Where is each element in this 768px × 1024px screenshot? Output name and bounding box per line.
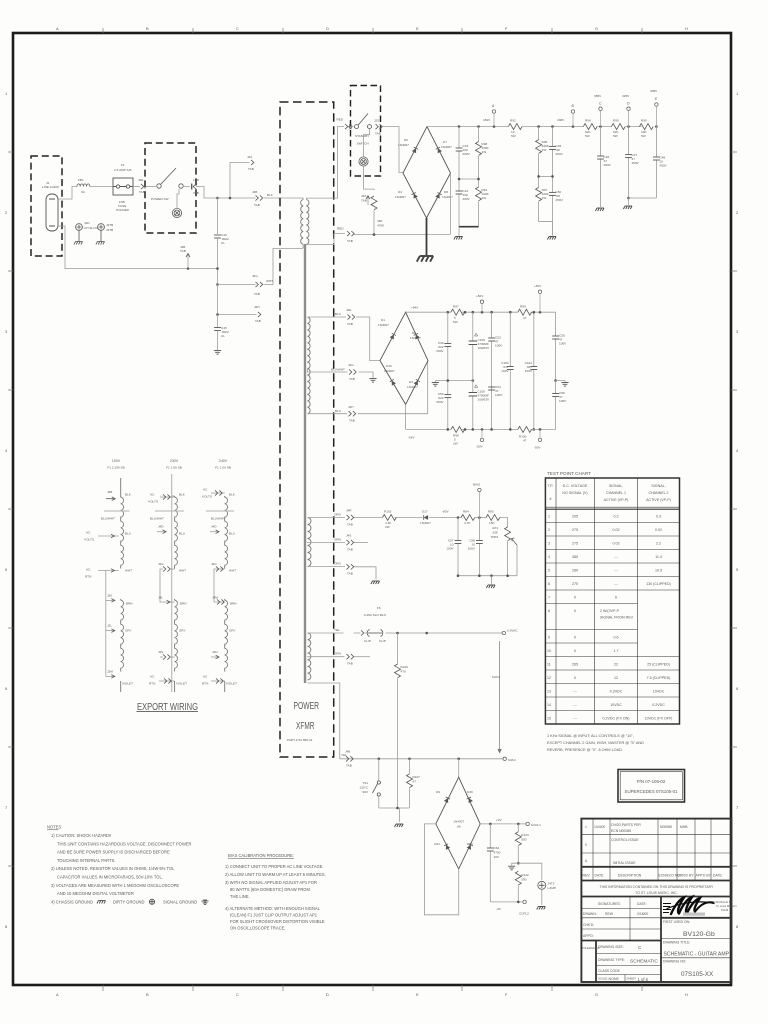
signal ground below C45 xyxy=(217,331,219,351)
svg-text:TAB: TAB xyxy=(347,239,353,243)
svg-text:TS1: TS1 xyxy=(362,781,368,785)
wire RED into standby xyxy=(348,126,354,128)
svg-text:J4D: J4D xyxy=(158,525,164,529)
wire standby out to bridge AC1 xyxy=(383,127,404,173)
svg-text:275: 275 xyxy=(572,542,578,546)
resistor R60 470K xyxy=(371,196,377,235)
svg-text:THE LINE.: THE LINE. xyxy=(230,894,250,899)
svg-text:TAB: TAB xyxy=(248,167,254,171)
svg-text:J4L: J4L xyxy=(158,596,163,600)
wire BLU/WHT center tap to ground xyxy=(359,372,374,378)
svg-text:TO ST. LOUIS MUSIC, INC.: TO ST. LOUIS MUSIC, INC. xyxy=(635,891,677,895)
svg-text:BLU/WHT: BLU/WHT xyxy=(211,517,225,521)
node R106 tap xyxy=(396,632,399,635)
diode D8 xyxy=(435,193,441,199)
svg-text:25 (CLIPPED): 25 (CLIPPED) xyxy=(647,663,670,667)
bridge rectifier 3 diamond xyxy=(458,759,460,777)
node arrow tap xyxy=(425,632,428,635)
J2S chevrons on rail 230 xyxy=(160,654,175,659)
svg-text:SWITCH: SWITCH xyxy=(357,142,369,146)
svg-text:VOLTS: VOLTS xyxy=(84,538,94,542)
connector J4S xyxy=(347,540,354,545)
svg-text:T.P.: T.P. xyxy=(548,484,554,488)
capacitor C57 xyxy=(457,518,459,576)
svg-text:D16: D16 xyxy=(386,364,392,368)
svg-text:6.25A SLO BLO: 6.25A SLO BLO xyxy=(364,613,387,617)
-50V terminal mid xyxy=(480,438,483,441)
svg-text:14: 14 xyxy=(547,703,551,707)
svg-text:1W: 1W xyxy=(542,196,547,200)
connector J4D RED xyxy=(345,124,352,129)
svg-text:13: 13 xyxy=(547,690,551,694)
svg-text:DRAWING NO:: DRAWING NO: xyxy=(663,960,686,964)
svg-text:VIOLET: VIOLET xyxy=(122,682,133,686)
svg-text:1N4007: 1N4007 xyxy=(384,369,395,373)
capacitor C46 xyxy=(217,198,219,234)
svg-text:10.5: 10.5 xyxy=(655,569,662,573)
svg-text:ORG: ORG xyxy=(334,562,342,566)
svg-text:TAB: TAB xyxy=(349,377,355,381)
svg-text:J2B: J2B xyxy=(252,190,257,194)
100V primary coil xyxy=(121,478,124,692)
svg-text:TAB: TAB xyxy=(347,662,353,666)
standby switch S2 xyxy=(355,114,372,129)
diode D6 xyxy=(412,147,418,153)
svg-text:6: 6 xyxy=(736,686,739,691)
-50V terminal right xyxy=(538,438,541,441)
capacitor C53 xyxy=(491,312,493,390)
-3V bottom rail xyxy=(490,901,523,903)
svg-text:8: 8 xyxy=(736,924,739,929)
svg-text:1: 1 xyxy=(585,825,587,829)
mid row stack2 xyxy=(539,175,553,177)
svg-text:GRN: GRN xyxy=(334,652,341,656)
right area lines xyxy=(661,917,731,919)
svg-text:3: 3 xyxy=(5,329,8,334)
svg-text:1N4007: 1N4007 xyxy=(410,336,421,340)
signal ground center tap xyxy=(369,379,376,383)
230V wire color labels xyxy=(176,493,187,686)
svg-text:0: 0 xyxy=(574,676,576,680)
svg-text:J4R: J4R xyxy=(346,509,352,513)
svg-text:DRN'D BY:: DRN'D BY: xyxy=(678,874,695,878)
svg-text:TAB: TAB xyxy=(139,190,145,194)
capacitor C45b xyxy=(552,127,554,177)
+50V rail xyxy=(406,311,556,313)
mid node + signal ground xyxy=(517,862,520,865)
capacitor C49 xyxy=(447,312,449,380)
svg-text:BRN: BRN xyxy=(126,602,133,606)
connector J2S out xyxy=(376,124,383,129)
diode D39 xyxy=(467,797,473,803)
svg-text:YEL: YEL xyxy=(334,628,340,632)
rev table texts xyxy=(582,823,723,981)
svg-text:AC: AC xyxy=(203,488,208,492)
svg-text:GRY: GRY xyxy=(125,629,132,633)
svg-text:WHT: WHT xyxy=(125,569,132,573)
svg-text:3: 3 xyxy=(736,329,739,334)
svg-text:PART # 94-658-41: PART # 94-658-41 xyxy=(287,738,313,742)
bottom row bridge1 filter xyxy=(459,226,479,228)
wire switch out to J2B row xyxy=(183,187,218,199)
svg-text:D3: D3 xyxy=(409,380,413,384)
svg-text:TAB: TAB xyxy=(361,199,367,203)
mid ground right xyxy=(554,379,557,382)
svg-text:C: C xyxy=(638,945,642,950)
svg-text:9: 9 xyxy=(548,636,550,640)
svg-text:2/18/00: 2/18/00 xyxy=(637,912,648,916)
svg-text:J2S: J2S xyxy=(158,650,163,654)
svg-text:R99: R99 xyxy=(520,305,526,309)
terminal 6.3VAC xyxy=(502,631,505,634)
svg-text:205: 205 xyxy=(572,515,578,519)
wire BLU bottom tap xyxy=(308,413,348,415)
BIAS terminal xyxy=(478,516,481,519)
svg-text:250V: 250V xyxy=(436,400,444,404)
svg-text:D39: D39 xyxy=(467,790,473,794)
connector J2H stub xyxy=(218,285,257,315)
HT rail xyxy=(427,126,656,128)
fuse F1 xyxy=(113,178,133,195)
svg-text:+50V: +50V xyxy=(534,284,542,288)
svg-text:R106: R106 xyxy=(401,665,409,669)
svg-text:D40: D40 xyxy=(467,842,473,846)
wire YEL top tap xyxy=(308,632,344,634)
svg-text:4: 4 xyxy=(736,448,739,453)
svg-text:15K: 15K xyxy=(489,521,495,525)
svg-text:6VAC: 6VAC xyxy=(492,675,501,679)
J2G chevrons on rail WHT 230 xyxy=(160,566,175,602)
svg-text:4.7K: 4.7K xyxy=(464,521,471,525)
svg-text:305V: 305V xyxy=(650,89,658,93)
svg-text:ACTIVE (VP-P): ACTIVE (VP-P) xyxy=(646,498,671,502)
svg-text:J2K: J2K xyxy=(107,594,113,598)
svg-text:1901 Burnet Dr.: 1901 Burnet Dr. xyxy=(714,900,732,904)
svg-text:0: 0 xyxy=(574,596,576,600)
trimmer bottom + wiper return xyxy=(508,541,517,575)
svg-text:1N4007: 1N4007 xyxy=(378,323,389,327)
chassis ground filter1 xyxy=(454,237,463,240)
svg-text:J2A: J2A xyxy=(247,155,253,159)
svg-text:VOLTS: VOLTS xyxy=(148,500,158,504)
capacitor C64 xyxy=(489,824,491,902)
capacitor C50c xyxy=(447,381,449,430)
svg-text:10VDC: 10VDC xyxy=(610,703,622,707)
svg-text:B: B xyxy=(146,26,149,31)
svg-text:3A: 3A xyxy=(81,190,86,194)
svg-text:THIS INFORMATION CONTAINED ON: THIS INFORMATION CONTAINED ON THIS DRAWI… xyxy=(600,885,714,889)
wire ORG bias row xyxy=(354,517,508,519)
svg-text:5: 5 xyxy=(5,567,8,572)
svg-text:REV:: REV: xyxy=(583,874,591,878)
svg-text:6VAC: 6VAC xyxy=(508,758,517,762)
node R60 bottom xyxy=(373,233,376,236)
svg-text:TOUCHING INTERNAL PARTS.: TOUCHING INTERNAL PARTS. xyxy=(57,858,116,863)
svg-text:RTN: RTN xyxy=(202,682,208,686)
svg-text:BRN: BRN xyxy=(180,602,187,606)
svg-text:INITIAL ISSUE: INITIAL ISSUE xyxy=(613,861,636,865)
diode D2 xyxy=(414,333,420,339)
svg-text:R97: R97 xyxy=(453,305,459,309)
svg-text:J4TB: J4TB xyxy=(106,228,113,232)
svg-text:275: 275 xyxy=(572,582,578,586)
svg-text:BLU/WHT: BLU/WHT xyxy=(331,368,345,372)
svg-text:UL: UL xyxy=(221,334,225,338)
svg-text:250V: 250V xyxy=(556,198,564,202)
svg-text:---: --- xyxy=(614,555,618,559)
svg-text:47: 47 xyxy=(523,439,527,443)
capacitor C46b xyxy=(600,127,602,207)
svg-text:J4D: J4D xyxy=(211,525,217,529)
svg-text:265: 265 xyxy=(572,663,578,667)
svg-text:DRAWING SIZE:: DRAWING SIZE: xyxy=(598,945,624,949)
svg-text:80 WATTS (60A DOMESTIC) DRAW F: 80 WATTS (60A DOMESTIC) DRAW FROM xyxy=(230,887,310,892)
svg-text:D.C. VOLTAGE: D.C. VOLTAGE xyxy=(563,484,588,488)
connector J4H xyxy=(349,411,356,416)
svg-text:200V: 200V xyxy=(463,197,471,201)
svg-text:130 (CLIPPED): 130 (CLIPPED) xyxy=(646,582,671,586)
P/N box xyxy=(618,770,685,803)
svg-text:8: 8 xyxy=(5,924,8,929)
svg-text:FIRST USED ON:: FIRST USED ON: xyxy=(663,920,690,924)
svg-text:1: 1 xyxy=(5,91,8,96)
ground lug J4TB xyxy=(96,224,105,245)
svg-text:AC: AC xyxy=(86,568,91,572)
svg-text:CCFL1: CCFL1 xyxy=(531,823,541,827)
svg-text:St. Louis Missouri: St. Louis Missouri xyxy=(716,904,737,908)
svg-text:TAB: TAB xyxy=(255,319,261,323)
svg-text:2: 2 xyxy=(736,210,739,215)
svg-text:B: B xyxy=(146,992,149,997)
chevron on 230V rail xyxy=(160,494,175,499)
terminal CCFL1 xyxy=(526,822,529,825)
svg-text:100V: 100V xyxy=(495,344,503,348)
T1 primary winding xyxy=(301,200,303,245)
connector J4G xyxy=(349,369,356,374)
node C57 xyxy=(457,516,460,519)
ground bias xyxy=(491,576,493,585)
svg-text:BLU: BLU xyxy=(335,409,341,413)
wire bridge AC2 to RED return xyxy=(450,173,452,235)
svg-text:7: 7 xyxy=(5,805,8,810)
svg-text:DATE:: DATE: xyxy=(637,902,647,906)
svg-text:D41: D41 xyxy=(434,842,440,846)
svg-text:7.5 (CLIPPED): 7.5 (CLIPPED) xyxy=(647,676,671,680)
header text xyxy=(548,484,671,502)
svg-text:D: D xyxy=(627,102,630,106)
svg-text:4) CHASSIS GROUND: 4) CHASSIS GROUND xyxy=(51,899,93,904)
svg-text:G: G xyxy=(595,26,598,31)
svg-text:---: --- xyxy=(614,582,618,586)
svg-text:63146: 63146 xyxy=(721,908,729,912)
title block frame xyxy=(581,819,731,982)
chart footnote xyxy=(547,734,644,752)
svg-text:325V: 325V xyxy=(622,94,630,98)
svg-text:590: 590 xyxy=(521,838,526,842)
T1 50V secondary winding xyxy=(308,317,311,414)
resistor R84 xyxy=(461,515,475,521)
svg-text:LED: LED xyxy=(193,178,200,182)
svg-text:TEST POINT CHART: TEST POINT CHART xyxy=(547,471,591,476)
SLM logo xyxy=(663,904,671,913)
connector J2E xyxy=(141,184,145,189)
svg-text:TAB: TAB xyxy=(254,203,260,207)
svg-text:AC: AC xyxy=(86,531,91,535)
node C47 bottom + wire to C48 xyxy=(627,197,630,200)
ferrite bead FB1 xyxy=(77,184,90,187)
connector chevron xyxy=(361,630,364,635)
svg-text:P/N 07-105-02: P/N 07-105-02 xyxy=(637,779,666,784)
svg-text:TAB: TAB xyxy=(347,322,353,326)
svg-text:D7: D7 xyxy=(443,140,447,144)
svg-text:H: H xyxy=(685,26,688,31)
connector J2C LED xyxy=(192,184,196,190)
resistor R91 xyxy=(478,179,480,227)
svg-text:100/63V: 100/63V xyxy=(478,346,490,350)
svg-text:A: A xyxy=(492,104,495,108)
svg-text:0.2VDC (FX ON): 0.2VDC (FX ON) xyxy=(603,717,630,721)
svg-text:DRAWING TYPE:: DRAWING TYPE: xyxy=(598,958,625,962)
svg-text:C: C xyxy=(599,102,602,106)
svg-text:0.3: 0.3 xyxy=(614,515,619,519)
svg-text:6: 6 xyxy=(615,596,617,600)
wire ORG bottom tap xyxy=(308,566,346,568)
svg-text:100V: 100V xyxy=(468,547,476,551)
ground lug J2D CH SLUG xyxy=(74,224,83,245)
svg-text:---: --- xyxy=(573,690,577,694)
svg-text:F: F xyxy=(505,992,508,997)
connector J2B xyxy=(256,195,263,200)
svg-text:2 W/(3VP-P: 2 W/(3VP-P xyxy=(600,609,620,613)
svg-text:7: 7 xyxy=(548,596,550,600)
svg-text:0.6: 0.6 xyxy=(614,636,619,640)
svg-text:07S105-XX: 07S105-XX xyxy=(681,971,714,978)
svg-text:452V: 452V xyxy=(483,118,491,122)
svg-text:2: 2 xyxy=(548,528,550,532)
+3V output wire xyxy=(480,823,526,825)
electrolytic C106 xyxy=(472,381,474,430)
node return at lamp leg xyxy=(187,267,190,270)
svg-text:100V: 100V xyxy=(559,342,567,346)
svg-text:SIGNAL,: SIGNAL, xyxy=(651,484,665,488)
connector J2A stub xyxy=(230,163,250,199)
svg-text:R103: R103 xyxy=(384,510,392,514)
svg-text:B: B xyxy=(572,104,575,108)
svg-text:N00085: N00085 xyxy=(660,825,672,829)
svg-text:5W: 5W xyxy=(641,134,646,138)
svg-text:POWER SW: POWER SW xyxy=(151,197,169,201)
svg-text:460: 460 xyxy=(377,219,382,223)
svg-text:0.2VDC: 0.2VDC xyxy=(610,690,623,694)
power transformer T1 dashed box xyxy=(280,102,334,757)
capacitor C58 xyxy=(478,518,480,576)
svg-text:DATE:: DATE: xyxy=(595,874,605,878)
wire YEL bottom tap riser down xyxy=(308,683,355,759)
svg-text:450V: 450V xyxy=(632,161,640,165)
svg-text:-3V: -3V xyxy=(496,907,502,911)
chassis ground bridge1 xyxy=(417,256,433,262)
svg-text:10VDC (FX OFF): 10VDC (FX OFF) xyxy=(645,717,673,721)
svg-text:1: 1 xyxy=(548,515,550,519)
svg-text:---: --- xyxy=(614,569,618,573)
svg-text:GRY: GRY xyxy=(229,629,236,633)
svg-text:-54V: -54V xyxy=(408,436,415,440)
bias bottom rail xyxy=(458,575,517,577)
resistor R107 xyxy=(409,759,411,774)
line cord dashed box xyxy=(31,156,62,256)
svg-text:10/4/00: 10/4/00 xyxy=(594,825,605,829)
svg-text:SIGNAL FROM REV.: SIGNAL FROM REV. xyxy=(600,616,634,620)
svg-text:SIGNATURES:: SIGNATURES: xyxy=(598,902,621,906)
svg-text:100V: 100V xyxy=(446,547,454,551)
WHT-BRN jumper 240 xyxy=(214,566,225,602)
-50V rail xyxy=(406,404,556,429)
svg-text:3: 3 xyxy=(548,542,550,546)
resistor R96 100K xyxy=(538,127,540,177)
terminal 6VAC xyxy=(503,757,506,760)
capacitor C54 xyxy=(491,390,493,429)
svg-text:R85: R85 xyxy=(488,510,494,514)
svg-text:12: 12 xyxy=(614,676,618,680)
240V primary coil xyxy=(225,496,228,692)
svg-text:DATE:: DATE: xyxy=(713,874,723,878)
T1 HT secondary winding xyxy=(306,200,308,245)
svg-text:BLK: BLK xyxy=(267,193,274,197)
capacitor C56 xyxy=(555,381,557,430)
svg-text:J4TB: J4TB xyxy=(106,223,113,227)
capacitor C48 xyxy=(655,127,657,198)
svg-text:D17: D17 xyxy=(422,510,428,514)
svg-text:RTN: RTN xyxy=(85,575,91,579)
svg-text:CONTROL ISSUE: CONTROL ISSUE xyxy=(611,838,639,842)
svg-text:1) CONNECT UNIT TO PROPER AC L: 1) CONNECT UNIT TO PROPER AC LINE VOLTAG… xyxy=(225,864,324,869)
svg-text:0.03: 0.03 xyxy=(613,542,620,546)
wire ORG top tap xyxy=(308,517,346,519)
svg-text:---: --- xyxy=(573,703,577,707)
svg-text:+54V: +54V xyxy=(411,306,419,310)
svg-text:130°C: 130°C xyxy=(359,786,368,790)
gray jumper 240V xyxy=(206,510,234,512)
svg-text:3) WITH NO SIGNAL APPLIED ADJU: 3) WITH NO SIGNAL APPLIED ADJUST AP1 FOR xyxy=(225,880,317,885)
svg-text:F1: F1 xyxy=(121,163,125,167)
wire GRN stub xyxy=(354,542,368,544)
svg-text:BIAS CALIBRATION PROCEDURE:: BIAS CALIBRATION PROCEDURE: xyxy=(228,853,294,858)
svg-text:J2S: J2S xyxy=(374,119,379,123)
svg-text:230V: 230V xyxy=(170,459,179,463)
svg-text:385V: 385V xyxy=(594,94,602,98)
svg-text:J4M: J4M xyxy=(212,596,218,600)
wire line cord hot to FB1 xyxy=(58,187,77,200)
bridge rectifier 2 diamond xyxy=(380,312,428,404)
svg-text:2.2: 2.2 xyxy=(656,542,661,546)
svg-text:1N4007: 1N4007 xyxy=(453,820,464,824)
svg-text:0: 0 xyxy=(574,609,576,613)
svg-text:5W: 5W xyxy=(453,320,458,324)
svg-text:XFMR: XFMR xyxy=(296,721,315,732)
svg-text:0: 0 xyxy=(574,636,576,640)
svg-text:SHEET:: SHEET: xyxy=(627,977,637,981)
svg-text:CLIP: CLIP xyxy=(364,639,371,643)
svg-text:RTN: RTN xyxy=(149,682,155,686)
svg-text:R92: R92 xyxy=(510,119,516,123)
svg-text:2.5 AMP S.B: 2.5 AMP S.B xyxy=(114,168,131,172)
diode D41 xyxy=(444,844,450,850)
pilot lamp J4T3 xyxy=(538,881,546,889)
svg-text:F1 3.15A SB: F1 3.15A SB xyxy=(107,466,124,470)
svg-text:TAB: TAB xyxy=(180,249,186,253)
svg-text:POWER: POWER xyxy=(294,701,320,712)
svg-text:FOR SLIGHT CROSSOVER DISTORTIO: FOR SLIGHT CROSSOVER DISTORTION VISIBLE xyxy=(230,919,325,924)
